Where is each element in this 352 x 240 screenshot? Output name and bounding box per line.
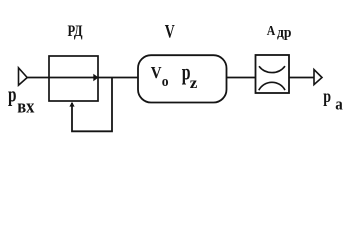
svg-text:о: о <box>162 74 169 90</box>
svg-text:А: А <box>267 23 276 38</box>
wire V to A_dr <box>227 77 256 79</box>
block A_dr square (throttle) <box>256 55 290 93</box>
svg-text:V: V <box>165 22 175 43</box>
wire A_dr to output <box>289 77 314 79</box>
label p_a <box>323 86 343 114</box>
input port triangle p_vx <box>19 68 28 85</box>
throttle venturi arcs inside A_dr <box>259 66 285 90</box>
feedback wire <box>72 78 112 131</box>
svg-text:z: z <box>190 75 198 92</box>
arrowhead at RD right edge <box>93 74 98 81</box>
svg-text:др: др <box>277 25 292 41</box>
label V_o p_z inside stadium <box>151 59 198 92</box>
block V stadium (volume) <box>138 55 227 102</box>
label A_dr <box>267 23 292 41</box>
block RD rectangle (pressure regulator) <box>49 56 98 101</box>
svg-text:вх: вх <box>17 97 35 118</box>
svg-text:РД: РД <box>68 21 83 40</box>
label p_vx <box>8 81 35 117</box>
svg-text:р: р <box>323 86 331 106</box>
wire RD to V <box>98 77 138 79</box>
svg-text:р: р <box>8 81 17 106</box>
feedback arrowhead into RD bottom <box>69 102 74 107</box>
output port triangle p_a <box>314 70 322 85</box>
svg-text:а: а <box>335 95 343 114</box>
wire input to RD block <box>27 77 97 79</box>
svg-text:V: V <box>151 63 162 82</box>
